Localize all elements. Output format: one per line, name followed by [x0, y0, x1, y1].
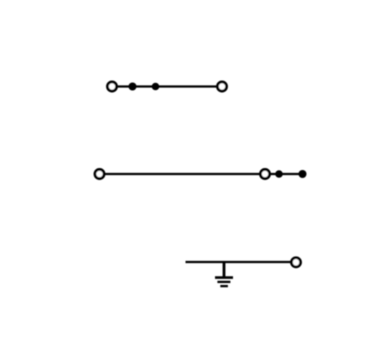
- terminal X2 (top right clamp): [217, 82, 226, 91]
- junction dot B1: [275, 170, 283, 178]
- junction dot B2: [299, 170, 307, 178]
- wire L1 (top deck feed-through): [112, 85, 222, 87]
- terminal X5 (bottom right clamp): [291, 258, 300, 267]
- wire L2 (middle deck feed-through): [100, 173, 303, 175]
- wire (ground stub): [223, 262, 226, 278]
- terminal X4 (middle right clamp): [260, 169, 269, 178]
- ground (earth symbol bar 3): [220, 285, 228, 287]
- junction dot A1: [129, 83, 137, 91]
- wire L3 (bottom deck PE rail): [186, 261, 291, 263]
- terminal X1 (top left clamp): [107, 82, 116, 91]
- terminal X3 (middle left clamp): [95, 169, 104, 178]
- ground (earth symbol bar 2): [217, 281, 230, 283]
- junction dot A2: [152, 83, 160, 91]
- ground (earth symbol bar 1): [215, 276, 233, 279]
